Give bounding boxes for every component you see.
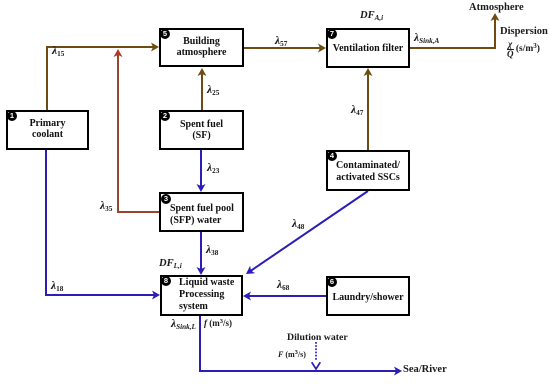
block 1 Primary coolant: [6, 110, 89, 150]
arrowhead lambda48: [246, 266, 255, 274]
label lambda47: [351, 104, 363, 117]
wire lambda47 from Contaminated SSCs top to Ventilation filter bottom: [367, 73, 369, 150]
label DF A,i: [360, 10, 383, 22]
label lambda48: [292, 218, 304, 231]
wire lambdaSinkA from Ventilation filter right up to Atmosphere: [410, 18, 495, 48]
block 8 Liquid waste Processing system: [160, 275, 243, 316]
label DF L,i: [159, 258, 182, 270]
wire lambda25 from Spent fuel top to Building atmosphere bottom: [201, 73, 203, 110]
label lambda57: [275, 35, 287, 48]
wire lambda18 from Primary coolant bottom to Liquid waste left: [46, 150, 155, 295]
number 2: [160, 111, 170, 121]
label lambda25: [207, 84, 219, 97]
label F m3 s: [278, 349, 306, 359]
arrowhead lambda35 up into junction: [114, 49, 123, 57]
arrowhead dilution water down: [312, 362, 321, 369]
arrowhead lambda68 into box 8: [243, 292, 251, 301]
block 2 Spent fuel SF: [159, 110, 244, 150]
label lambdaSinkL: [171, 318, 196, 331]
arrowhead lambda38 down into box 8: [197, 267, 206, 275]
block 5 Building atmosphere: [159, 28, 244, 67]
label lambda68: [277, 279, 289, 292]
label Dilution water: [287, 332, 348, 343]
label chi over Q fraction s m3: [507, 39, 540, 59]
number 4: [327, 151, 337, 161]
wire dilution water dotted: [315, 342, 317, 361]
label f m3 s: [204, 318, 232, 328]
arrowhead lambda57 into box 7: [318, 44, 326, 53]
label lambda15: [52, 45, 64, 58]
arrowhead Sea River: [394, 367, 402, 376]
wire lambda15 from Primary coolant top to Building atmosphere left: [47, 47, 154, 110]
label lambdaSinkA: [414, 32, 439, 45]
label Sea River: [403, 364, 447, 375]
label lambda35: [100, 200, 112, 213]
label Dispersion: [500, 26, 548, 37]
wire lambda35 from SFP water left up to lambda15 line: [118, 54, 159, 212]
number 8: [161, 276, 171, 286]
wire discharge from Liquid waste bottom to Sea River: [200, 316, 397, 371]
wire lambda23 from Spent fuel bottom to SFP water top: [200, 150, 202, 187]
wire lambda38 from SFP water bottom to Liquid waste top: [200, 232, 202, 270]
arrowhead lambda25 up into box 5: [198, 68, 207, 76]
block 3 Spent fuel pool SFP water: [159, 192, 244, 232]
number 1: [7, 111, 17, 121]
arrowhead lambda18 into box 8: [152, 291, 160, 300]
wire lambda48 diagonal from Contaminated SSCs bottom to Liquid waste top right: [249, 191, 368, 272]
label Atmosphere: [469, 2, 524, 13]
wire lambda57 from Building atmosphere right to Ventilation filter left: [244, 47, 321, 49]
arrowhead lambda23 down into box 3: [197, 184, 206, 192]
block 4 Contaminated activated SSCs: [326, 150, 410, 191]
arrowhead to Atmosphere: [491, 13, 500, 21]
number 5: [160, 29, 170, 39]
wire lambda68 from Laundry shower left to Liquid waste right: [248, 295, 326, 297]
label lambda23: [207, 162, 219, 175]
label lambda18: [51, 280, 63, 293]
block 6 Laundry shower: [326, 276, 410, 316]
block 7 Ventilation filter: [326, 28, 410, 68]
arrowhead lambda47 up into box 7: [364, 68, 373, 76]
number 7: [327, 29, 337, 39]
label lambda38: [206, 244, 218, 257]
arrowhead lambda15 into box 5: [151, 43, 159, 52]
number 3: [161, 194, 171, 204]
number 6: [327, 277, 337, 287]
